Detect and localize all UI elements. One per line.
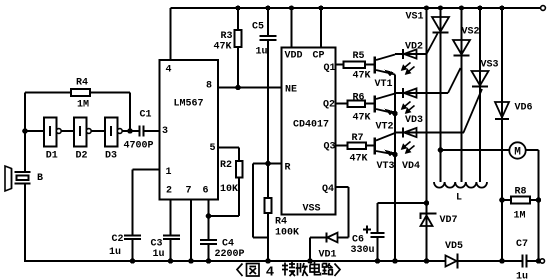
svg-text:R2: R2 <box>220 160 232 171</box>
svg-text:VD2: VD2 <box>405 42 423 53</box>
svg-text:R4: R4 <box>76 78 88 89</box>
svg-text:M: M <box>514 147 521 159</box>
svg-text:10K: 10K <box>220 184 238 195</box>
svg-text:R7: R7 <box>351 133 363 144</box>
svg-text:8: 8 <box>206 81 212 92</box>
svg-text:R: R <box>284 163 290 174</box>
svg-text:VDD: VDD <box>284 51 302 62</box>
svg-text:NE: NE <box>285 85 297 96</box>
svg-text:4700P: 4700P <box>123 141 153 152</box>
svg-text:VT2: VT2 <box>375 122 393 133</box>
svg-text:VD3: VD3 <box>405 115 423 126</box>
svg-text:2200P: 2200P <box>214 249 244 260</box>
svg-text:1u: 1u <box>109 247 121 258</box>
svg-text:VD6: VD6 <box>514 103 532 114</box>
svg-text:VS3: VS3 <box>480 60 498 71</box>
svg-text:B: B <box>37 173 43 184</box>
svg-text:47K: 47K <box>352 71 370 82</box>
svg-text:D3: D3 <box>105 151 117 162</box>
svg-text:L: L <box>456 193 462 204</box>
svg-text:5: 5 <box>209 143 215 154</box>
svg-text:D2: D2 <box>75 151 87 162</box>
svg-text:47K: 47K <box>349 154 367 165</box>
svg-text:VD1: VD1 <box>318 250 336 261</box>
svg-text:C6: C6 <box>352 235 364 246</box>
svg-text:4: 4 <box>165 65 171 76</box>
svg-text:1M: 1M <box>513 211 525 222</box>
svg-text:2: 2 <box>166 186 172 197</box>
svg-text:R8: R8 <box>514 187 526 198</box>
svg-text:C4: C4 <box>222 239 234 250</box>
svg-text:R5: R5 <box>352 51 364 62</box>
svg-text:VD7: VD7 <box>439 215 457 226</box>
svg-text:Q4: Q4 <box>322 184 334 195</box>
svg-text:C5: C5 <box>252 22 264 33</box>
svg-text:VSS: VSS <box>302 204 320 215</box>
svg-text:1u: 1u <box>152 249 164 260</box>
svg-text:1u: 1u <box>516 272 528 280</box>
svg-text:C1: C1 <box>139 110 151 121</box>
svg-text:6: 6 <box>202 186 208 197</box>
svg-text:1: 1 <box>165 167 171 178</box>
svg-text:Q3: Q3 <box>323 142 335 153</box>
svg-text:D1: D1 <box>46 151 58 162</box>
svg-text:LM567: LM567 <box>173 99 203 110</box>
svg-text:7: 7 <box>185 186 191 197</box>
svg-text:C2: C2 <box>111 234 123 245</box>
svg-text:VD5: VD5 <box>445 241 463 252</box>
svg-text:R4: R4 <box>275 217 287 228</box>
svg-text:VT1: VT1 <box>374 79 392 90</box>
svg-text:CP: CP <box>312 51 324 62</box>
svg-text:47K: 47K <box>213 42 231 53</box>
svg-text:3: 3 <box>162 126 168 137</box>
svg-text:Q1: Q1 <box>323 63 335 74</box>
svg-text:100K: 100K <box>275 228 299 239</box>
svg-text:R3: R3 <box>220 31 232 42</box>
svg-text:1M: 1M <box>77 100 89 111</box>
svg-text:VS2: VS2 <box>461 27 479 38</box>
svg-text:1u: 1u <box>255 47 267 58</box>
svg-text:C3: C3 <box>150 239 162 250</box>
svg-text:4: 4 <box>266 264 274 280</box>
svg-text:VD4: VD4 <box>402 161 420 172</box>
svg-text:330u: 330u <box>350 245 374 256</box>
svg-text:C7: C7 <box>516 239 528 250</box>
svg-text:CD4017: CD4017 <box>293 120 329 131</box>
svg-text:Q2: Q2 <box>323 100 335 111</box>
svg-text:47K: 47K <box>352 113 370 124</box>
svg-text:VS1: VS1 <box>405 12 423 23</box>
svg-text:VT3: VT3 <box>376 161 394 172</box>
svg-text:R6: R6 <box>352 93 364 104</box>
